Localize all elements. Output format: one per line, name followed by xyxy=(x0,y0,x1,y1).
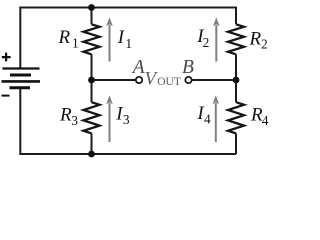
svg-text:OUT: OUT xyxy=(157,75,181,88)
current arrow I1 xyxy=(106,17,113,61)
svg-text:B: B xyxy=(182,57,194,78)
battery plate 3 (long) xyxy=(2,80,41,83)
wire: left bridge branch middle segment (R1 to R3 through node A-tap) xyxy=(91,54,93,102)
svg-text:2: 2 xyxy=(261,37,268,52)
wire: output tap from left branch node to terminal A xyxy=(92,79,136,81)
wire: left bridge branch top stub (node to R1) xyxy=(91,7,93,25)
svg-text:R: R xyxy=(249,29,262,50)
junction: middle node on right branch xyxy=(233,77,240,84)
wire: battery branch lower segment xyxy=(19,88,21,155)
svg-text:1: 1 xyxy=(72,35,79,50)
svg-text:3: 3 xyxy=(123,112,130,127)
current arrow I4 xyxy=(213,95,220,142)
wire: right bridge branch top stub (corner to R2) xyxy=(235,7,237,25)
svg-text:A: A xyxy=(131,57,145,78)
battery V source plate 1 (long, +) xyxy=(3,67,40,69)
svg-text:R: R xyxy=(58,27,71,48)
svg-text:1: 1 xyxy=(125,36,132,51)
resistor R2 xyxy=(228,24,244,54)
svg-text:4: 4 xyxy=(204,111,211,126)
V_OUT net label xyxy=(145,68,182,89)
current arrow I2 xyxy=(213,17,220,61)
node B label xyxy=(182,57,194,78)
battery - polarity label xyxy=(2,95,10,97)
junction: top node on left branch xyxy=(88,4,95,11)
svg-text:3: 3 xyxy=(71,113,78,128)
svg-text:2: 2 xyxy=(203,35,210,50)
wire: right bridge branch bottom stub (R4 to bottom rail) xyxy=(235,133,237,154)
svg-text:4: 4 xyxy=(262,113,269,128)
svg-text:R: R xyxy=(59,105,72,126)
wire: output tap from terminal B to right branch node xyxy=(193,79,237,81)
battery + polarity label xyxy=(2,53,11,62)
wire: right bridge branch middle segment (R2 to R4 through node B-tap) xyxy=(235,54,237,102)
wire: left bridge branch bottom stub (R3 to bottom rail) xyxy=(91,133,93,154)
resistor R4 xyxy=(228,102,244,133)
wire: top rail from battery + terminal to R2 branch xyxy=(20,7,236,9)
resistor R1 xyxy=(84,24,100,54)
junction: middle node on left branch xyxy=(88,77,95,84)
junction: bottom node on left branch xyxy=(88,151,95,158)
R4 value label xyxy=(250,105,269,128)
R2 value label xyxy=(249,29,268,52)
node A label xyxy=(131,57,145,78)
current arrow I3 xyxy=(106,95,113,142)
R1 value label xyxy=(58,27,79,50)
terminal A (open circle) xyxy=(136,77,142,83)
battery plate 4 (short, -) xyxy=(10,86,31,89)
I2 current label xyxy=(196,26,209,50)
wire: bottom rail from battery - terminal to R4 branch xyxy=(20,153,236,155)
resistor R3 xyxy=(84,102,100,133)
battery plate 2 (short) xyxy=(10,74,31,77)
I1 current label xyxy=(117,27,132,51)
terminal B (open circle) xyxy=(185,77,191,83)
wire: battery branch upper segment xyxy=(19,7,21,69)
R3 value label xyxy=(59,105,78,128)
I3 current label xyxy=(115,104,130,127)
I4 current label xyxy=(196,103,211,126)
